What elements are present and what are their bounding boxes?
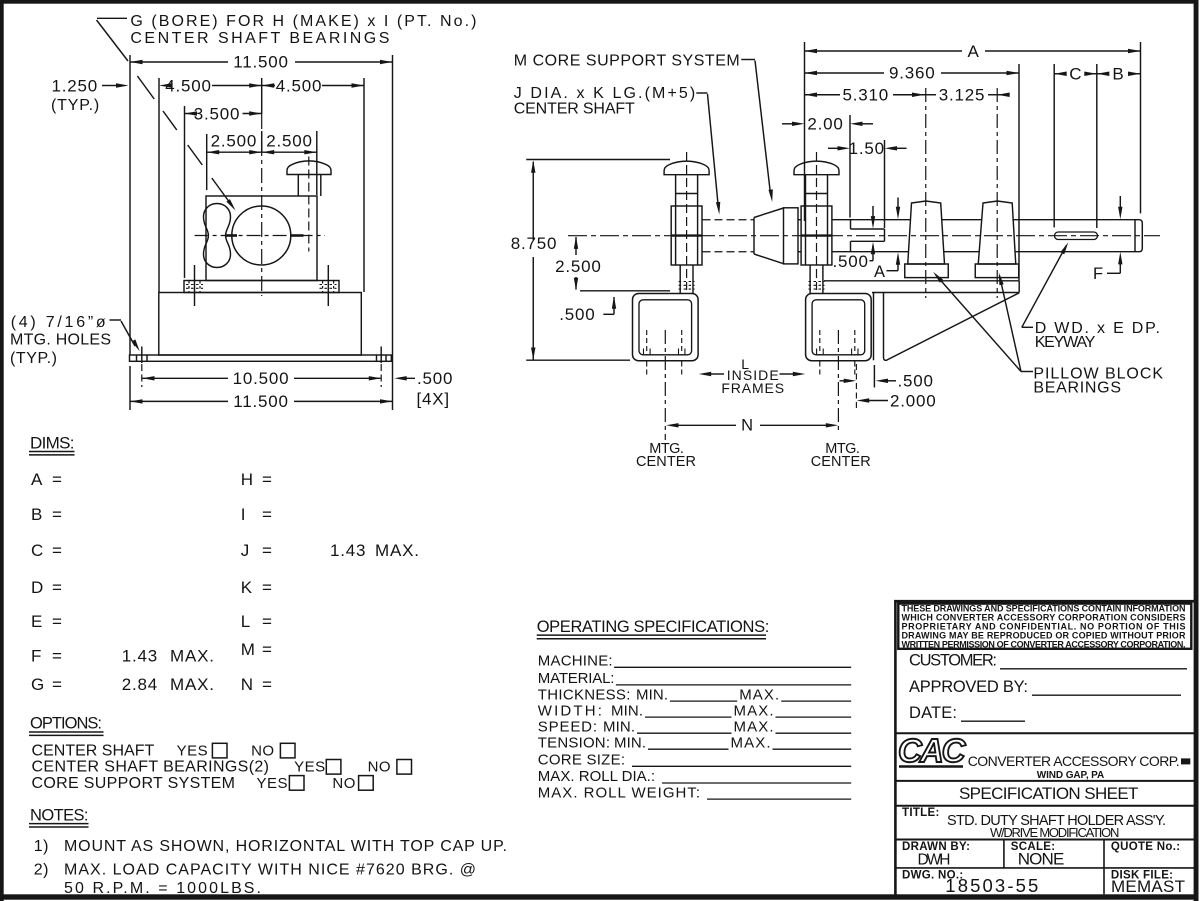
svg-text:WIND GAP, PA: WIND GAP, PA xyxy=(1037,770,1105,781)
leader J dia to shaft xyxy=(696,93,721,215)
svg-text:MAX. LOAD CAPACITY WITH NICE #: MAX. LOAD CAPACITY WITH NICE #7620 BRG. … xyxy=(64,862,476,879)
svg-text:J: J xyxy=(241,541,250,560)
svg-text:YES: YES xyxy=(257,775,289,792)
page border frame xyxy=(0,0,1199,4)
mtg hole left xyxy=(137,347,148,388)
svg-text:MIN.: MIN. xyxy=(611,702,643,719)
svg-text:[4X]: [4X] xyxy=(417,390,450,409)
svg-text:FRAMES: FRAMES xyxy=(721,380,784,396)
svg-text:DATE:: DATE: xyxy=(909,704,957,722)
dim 11.500 bottom xyxy=(130,366,393,411)
svg-text:CENTER SHAFT: CENTER SHAFT xyxy=(32,743,155,760)
leader keyway label to slot xyxy=(1022,241,1070,327)
spec row WIDTH xyxy=(538,702,851,719)
svg-text:B: B xyxy=(31,505,43,524)
svg-text:DIMS:: DIMS: xyxy=(30,433,75,452)
holder cap stem xyxy=(806,175,828,206)
dim 2.000 xyxy=(857,391,937,410)
svg-text:MAX. ROLL WEIGHT:: MAX. ROLL WEIGHT: xyxy=(538,784,700,801)
drawn by / scale / quote row xyxy=(902,840,1180,895)
svg-text:=: = xyxy=(52,541,62,560)
label A shaft dia xyxy=(874,198,900,282)
dim 11.500 top xyxy=(130,53,393,411)
dim C keyway length xyxy=(1054,64,1097,228)
OPTIONS: header xyxy=(29,715,104,736)
dim N mounting centers xyxy=(666,417,838,435)
spec row MATERIAL xyxy=(538,670,851,687)
svg-text:CENTER: CENTER xyxy=(636,454,696,470)
svg-text:4.500: 4.500 xyxy=(276,76,323,95)
dim 1.50 xyxy=(828,139,907,228)
svg-text:=: = xyxy=(52,675,62,694)
leader from G label to bore circle xyxy=(97,18,238,211)
center shaft hidden between holder and cone xyxy=(703,220,755,252)
core support cone xyxy=(754,208,798,264)
svg-text:MAX.: MAX. xyxy=(739,686,779,703)
stud left (front view) xyxy=(186,265,203,306)
base mounting flange (front view) xyxy=(130,355,392,361)
divider above drawn-by row xyxy=(895,839,1196,841)
svg-text:C: C xyxy=(1069,65,1082,84)
TITLE: field xyxy=(902,807,1166,840)
svg-text:MAX.: MAX. xyxy=(734,702,774,719)
svg-text:M: M xyxy=(241,640,256,659)
label (4) 7/16 dia MTG. HOLES (TYP.) xyxy=(10,314,111,367)
note 1 xyxy=(34,838,507,855)
svg-text:MAX. ROLL DIA.:: MAX. ROLL DIA.: xyxy=(538,768,655,785)
holder cap knob at x=816.5 xyxy=(794,161,839,175)
svg-text:=: = xyxy=(262,470,272,489)
svg-text:2.500: 2.500 xyxy=(266,131,313,150)
svg-text:I: I xyxy=(241,505,246,524)
horizontal shaft centerline (side view) xyxy=(568,235,1160,237)
dim .500 plate offset xyxy=(840,364,934,409)
svg-text:CORE SUPPORT SYSTEM: CORE SUPPORT SYSTEM xyxy=(32,775,236,792)
svg-text:G (BORE) FOR H (MAKE) x I (PT.: G (BORE) FOR H (MAKE) x I (PT. No.) xyxy=(130,13,476,30)
svg-text:11.500: 11.500 xyxy=(233,53,289,72)
OPERATING SPECIFICATIONS header xyxy=(537,618,770,639)
label PILLOW BLOCK BEARINGS xyxy=(1033,365,1163,396)
dim .500 [4X] xyxy=(394,369,453,409)
label G (BORE) FOR H (MAKE) x I (PT. No.) CENTER SHAFT BEARINGS xyxy=(130,13,476,47)
svg-text:KEYWAY: KEYWAY xyxy=(1035,334,1096,351)
square frame tube at x=665.3 xyxy=(633,294,699,361)
dim 3.500 xyxy=(185,104,262,278)
svg-text:1): 1) xyxy=(34,838,49,855)
svg-text:NO: NO xyxy=(368,759,392,776)
note 2 xyxy=(34,862,476,898)
dim 2.00 xyxy=(782,115,873,218)
svg-text:2): 2) xyxy=(34,862,49,879)
svg-text:D: D xyxy=(31,578,44,597)
company name CONVERTER ACCESSORY CORP. xyxy=(968,753,1191,769)
svg-text:1.43: 1.43 xyxy=(330,541,366,560)
svg-text:SPEED:: SPEED: xyxy=(538,718,597,735)
holder clamp block xyxy=(801,206,832,265)
svg-text:BEARINGS: BEARINGS xyxy=(1033,380,1121,397)
spec row SPEED xyxy=(538,718,851,735)
svg-text:MIN.: MIN. xyxy=(636,686,668,703)
svg-text:CENTER SHAFT: CENTER SHAFT xyxy=(514,101,635,118)
svg-text:CENTER SHAFT BEARINGS: CENTER SHAFT BEARINGS xyxy=(130,30,389,47)
svg-text:THICKNESS:: THICKNESS: xyxy=(538,686,631,703)
pillow block 2 centerline xyxy=(996,88,998,298)
svg-text:MAX.: MAX. xyxy=(375,541,420,560)
svg-text:=: = xyxy=(262,578,272,597)
horizontal centerline through bore xyxy=(195,235,325,237)
shaft right of pillow block 2 with end xyxy=(1012,220,1142,252)
dim B shaft extension xyxy=(1097,65,1141,84)
shaft between pillow blocks xyxy=(942,220,981,252)
svg-text:N: N xyxy=(241,675,254,694)
svg-text:2.00: 2.00 xyxy=(807,115,843,134)
spec row MAX. ROLL DIA. xyxy=(538,768,851,785)
vertical centerline of front view xyxy=(261,78,263,296)
holder cap screw centerline xyxy=(816,152,818,290)
svg-text:=: = xyxy=(262,675,272,694)
svg-text:N: N xyxy=(741,417,754,435)
NOTES: header xyxy=(29,806,89,827)
svg-text:=: = xyxy=(262,612,272,631)
top cap stem (front view) xyxy=(298,175,321,197)
svg-text:CONVERTER ACCESSORY CORP.: CONVERTER ACCESSORY CORP. xyxy=(968,753,1180,769)
svg-text:MIN.: MIN. xyxy=(614,734,646,751)
svg-text:3.500: 3.500 xyxy=(194,104,241,123)
leader M core support to cone xyxy=(741,60,774,203)
svg-text:=: = xyxy=(52,612,62,631)
svg-text:E: E xyxy=(31,612,43,631)
svg-text:B: B xyxy=(1112,65,1124,84)
spec row THICKNESS xyxy=(538,686,851,703)
svg-text:NO: NO xyxy=(332,775,356,792)
plate support gusset xyxy=(874,293,1020,361)
holder cap screw centerline xyxy=(686,152,688,290)
bearing block body (front view) xyxy=(206,196,317,281)
dim 4.500 left xyxy=(159,76,262,292)
shaft between cone and holder 2 xyxy=(798,220,801,252)
svg-text:WRITTEN PERMISSION OF CONVERTE: WRITTEN PERMISSION OF CONVERTER ACCESSOR… xyxy=(902,640,1186,650)
svg-text:3.125: 3.125 xyxy=(939,86,986,105)
dim 2.500 / 2.500 xyxy=(207,131,317,195)
cap screw centerline (front view) xyxy=(308,157,310,252)
svg-text:G: G xyxy=(31,675,45,694)
svg-text:8.750: 8.750 xyxy=(511,234,558,253)
svg-text:=: = xyxy=(262,505,272,524)
svg-text:.500: .500 xyxy=(898,372,934,391)
dim .500 (left frame) xyxy=(559,296,616,324)
svg-text:.500: .500 xyxy=(559,305,595,324)
svg-text:CUSTOMER:: CUSTOMER: xyxy=(909,652,997,670)
svg-text:1.250: 1.250 xyxy=(51,77,98,96)
option row CORE SUPPORT SYSTEM xyxy=(32,775,374,792)
label MTG. CENTER left xyxy=(636,441,696,470)
option row CENTER SHAFT xyxy=(32,743,296,760)
svg-text:.500: .500 xyxy=(833,252,869,271)
bearing block mounting plate (front view) xyxy=(184,281,339,293)
dim 8.750 xyxy=(511,160,670,361)
svg-text:MAX.: MAX. xyxy=(734,718,774,735)
svg-text:OPTIONS:: OPTIONS: xyxy=(30,715,102,733)
dim 1.250 (TYP.) xyxy=(51,77,128,115)
svg-text:=: = xyxy=(262,640,272,659)
label MTG. CENTER right xyxy=(811,441,871,470)
holder stud into frame xyxy=(679,265,695,294)
base block (front view) xyxy=(159,293,361,356)
svg-text:J DIA. x K LG.(M+5): J DIA. x K LG.(M+5) xyxy=(514,85,696,102)
svg-text:F: F xyxy=(31,647,42,666)
svg-text:W/DRIVE MODIFICATION: W/DRIVE MODIFICATION xyxy=(990,825,1120,840)
svg-text:M CORE SUPPORT SYSTEM: M CORE SUPPORT SYSTEM xyxy=(514,53,740,70)
dim 10.500 xyxy=(142,369,381,388)
svg-text:TITLE:: TITLE: xyxy=(902,807,940,819)
shaft holder slot cutout (peanut shape) xyxy=(204,204,231,268)
svg-text:WIDTH:: WIDTH: xyxy=(538,702,602,719)
dim 5.310 xyxy=(805,86,925,105)
svg-text:NONE: NONE xyxy=(1018,849,1065,868)
divider above SPECIFICATION SHEET xyxy=(895,780,1196,782)
svg-text:=: = xyxy=(52,470,62,489)
svg-text:CAC: CAC xyxy=(898,732,967,769)
dwg no / disk file row xyxy=(902,869,1185,895)
holder cap stem xyxy=(676,175,698,206)
frame bolt hidden lines xyxy=(644,330,685,377)
svg-text:MATERIAL:: MATERIAL: xyxy=(538,670,615,687)
dim 2.500 (side view) xyxy=(555,236,670,290)
svg-text:=: = xyxy=(262,541,272,560)
svg-text:NOTES:: NOTES: xyxy=(30,806,89,824)
svg-text:TENSION:: TENSION: xyxy=(538,734,610,751)
svg-text:A: A xyxy=(31,470,43,489)
pillow block bearing 2 xyxy=(975,201,1019,278)
right frame mounting centerline xyxy=(837,330,839,433)
shaft with drive slot (section) xyxy=(832,220,910,252)
svg-text:2.500: 2.500 xyxy=(555,257,602,276)
svg-text:50 R.P.M. = 1000LBS.: 50 R.P.M. = 1000LBS. xyxy=(64,880,261,897)
svg-text:5.310: 5.310 xyxy=(842,86,889,105)
pillow block 1 centerline xyxy=(925,88,927,298)
svg-text:(4) 7/16”ø: (4) 7/16”ø xyxy=(11,314,106,331)
svg-text:MTG. HOLES: MTG. HOLES xyxy=(10,331,111,348)
holder clamp block xyxy=(671,206,702,265)
dim 3.125 xyxy=(925,86,1010,105)
spec row TENSION xyxy=(538,734,851,751)
holder cap knob at x=686.6 xyxy=(664,161,709,175)
svg-text:=: = xyxy=(52,505,62,524)
frame bolt hidden lines xyxy=(817,330,858,377)
svg-text:(TYP.): (TYP.) xyxy=(51,97,100,114)
title block divider above logo xyxy=(895,732,1196,734)
svg-text:QUOTE No.:: QUOTE No.: xyxy=(1111,841,1180,853)
spec row MACHINE xyxy=(538,653,851,670)
svg-text:4.500: 4.500 xyxy=(165,76,212,95)
svg-text:APPROVED BY:: APPROVED BY: xyxy=(909,678,1028,696)
svg-text:MIN.: MIN. xyxy=(603,718,635,735)
option row CENTER SHAFT BEARINGS(2) xyxy=(32,759,412,776)
svg-text:MAX.: MAX. xyxy=(731,734,771,751)
svg-text:(TYP.): (TYP.) xyxy=(10,350,57,367)
svg-text:NO: NO xyxy=(251,743,275,760)
spec row MAX. ROLL WEIGHT xyxy=(538,784,851,801)
divider above title field xyxy=(895,805,1196,807)
holder stud into frame xyxy=(809,265,825,294)
svg-text:1.50: 1.50 xyxy=(849,139,885,158)
svg-text:.500: .500 xyxy=(417,369,453,388)
pillow block bearing 1 xyxy=(905,201,949,278)
svg-text:A: A xyxy=(874,263,886,281)
square frame tube at x=838.4 xyxy=(806,294,872,361)
svg-text:MAX.: MAX. xyxy=(170,675,215,694)
DIMS table rows A-N xyxy=(31,470,420,694)
svg-text:=: = xyxy=(52,578,62,597)
svg-text:MEMAST: MEMAST xyxy=(1111,877,1185,896)
svg-text:L: L xyxy=(241,612,251,631)
svg-text:=: = xyxy=(52,647,62,666)
title block outer frame xyxy=(894,601,1196,894)
svg-text:CENTER SHAFT BEARINGS(2): CENTER SHAFT BEARINGS(2) xyxy=(32,759,270,776)
svg-text:YES: YES xyxy=(177,743,209,760)
spec row CORE SIZE xyxy=(538,752,851,769)
svg-text:2.84: 2.84 xyxy=(122,675,158,694)
svg-text:CORE SIZE:: CORE SIZE: xyxy=(538,752,625,769)
dim .500 slot height xyxy=(833,206,876,271)
stud right (front view) xyxy=(320,265,337,306)
keyway slot on shaft xyxy=(1055,232,1098,240)
svg-text:DWH: DWH xyxy=(918,851,951,868)
DIMS: header xyxy=(29,433,75,455)
svg-text:OPERATING SPECIFICATIONS:: OPERATING SPECIFICATIONS: xyxy=(537,618,770,636)
svg-text:C: C xyxy=(31,541,44,560)
mtg hole right xyxy=(377,347,387,388)
dim A overall xyxy=(805,42,1141,221)
label D WD. x E DP. KEYWAY xyxy=(1035,320,1160,351)
svg-text:MAX.: MAX. xyxy=(170,647,215,666)
svg-text:2.000: 2.000 xyxy=(890,391,937,410)
pillow block mounting plate xyxy=(824,281,1019,293)
svg-text:10.500: 10.500 xyxy=(233,369,290,388)
leaders pillow block label to bearings xyxy=(932,270,1033,371)
svg-text:MACHINE:: MACHINE: xyxy=(538,653,613,670)
svg-text:F: F xyxy=(1093,265,1104,283)
top cap knob (front view) xyxy=(287,161,331,175)
svg-text:18503-55: 18503-55 xyxy=(945,875,1038,896)
label J DIA. x K LG.(M+5) CENTER SHAFT xyxy=(514,85,696,118)
svg-text:11.500: 11.500 xyxy=(233,392,289,411)
svg-text:K: K xyxy=(241,578,253,597)
left frame mounting centerline xyxy=(664,330,666,440)
dim L INSIDE FRAMES xyxy=(699,356,806,396)
svg-text:H: H xyxy=(241,470,254,489)
customer / approved / date fields xyxy=(909,652,1187,723)
svg-text:CENTER: CENTER xyxy=(811,454,871,470)
svg-text:9.360: 9.360 xyxy=(889,64,936,83)
bore circle xyxy=(232,206,291,265)
dim 9.360 xyxy=(805,64,1020,281)
svg-text:MOUNT AS SHOWN, HORIZONTAL WIT: MOUNT AS SHOWN, HORIZONTAL WITH TOP CAP … xyxy=(64,838,507,855)
svg-text:SPECIFICATION SHEET: SPECIFICATION SHEET xyxy=(959,784,1139,803)
svg-text:1.43: 1.43 xyxy=(122,647,158,666)
proprietary notice box xyxy=(898,604,1191,650)
dim F shaft dia at end xyxy=(1093,196,1123,283)
divider above dwg-no row xyxy=(895,867,1196,869)
dim 4.500 right xyxy=(262,76,364,292)
svg-text:YES: YES xyxy=(294,759,326,776)
svg-text:2.500: 2.500 xyxy=(211,131,258,150)
svg-text:A: A xyxy=(968,42,980,61)
CAC logo xyxy=(898,732,967,769)
leader to mtg hole xyxy=(110,320,142,352)
